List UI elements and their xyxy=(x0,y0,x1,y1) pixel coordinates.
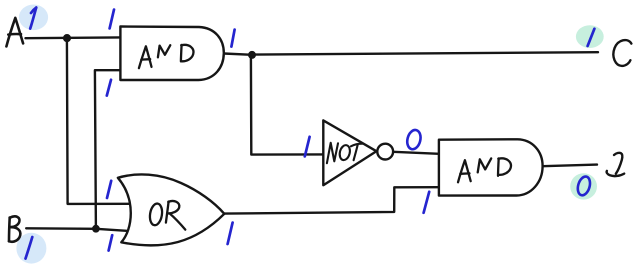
logic value 1 at NOT input xyxy=(305,137,310,157)
AND gate 1 label letter A xyxy=(139,46,152,68)
input label B xyxy=(9,216,20,241)
logic value 1 at AND1 input 2 xyxy=(107,80,111,96)
logic value 0 at NOT output xyxy=(405,129,422,151)
wire B up to AND1 input 2 xyxy=(95,70,121,229)
AND gate 2 body xyxy=(439,139,543,195)
AND gate 2 label letter N xyxy=(478,158,492,172)
wire A to AND1 input 1 xyxy=(26,36,121,39)
wire NOT output to AND2 input 1 xyxy=(393,152,439,154)
wire node A down to OR input 1 xyxy=(67,38,130,204)
wire B to OR input 2 xyxy=(26,228,126,231)
wire AND2 output to S xyxy=(543,165,597,167)
logic value 1 at AND1 input 1 xyxy=(110,10,114,29)
highlight on output S value xyxy=(570,173,597,199)
logic value 1 at input A xyxy=(30,8,36,29)
OR gate label letter O xyxy=(148,203,163,226)
AND gate 2 label letter A xyxy=(458,160,471,182)
NOT gate (inverter) triangle U3 xyxy=(323,120,376,185)
highlight on output C value xyxy=(576,25,604,48)
wire OR output to AND2 input 2 xyxy=(224,187,439,213)
highlight on input A value xyxy=(19,4,48,30)
logic value 1 at OR input 2 xyxy=(109,235,113,250)
logic value 1 at OR input 1 xyxy=(107,181,111,198)
junction node on B wire xyxy=(92,225,100,233)
wire AND1 output to node C xyxy=(224,54,252,55)
logic value 1 at AND1 output xyxy=(231,30,234,47)
OR gate label letter R xyxy=(166,201,185,230)
AND gate 2 label letter D xyxy=(498,158,511,175)
logic value 0 at output S xyxy=(576,175,592,197)
junction node on A wire xyxy=(63,34,71,42)
output label C xyxy=(613,40,631,66)
OR gate body xyxy=(118,174,224,245)
NOT gate label letter N xyxy=(327,143,338,163)
wire node down to NOT input xyxy=(251,55,324,155)
logic value 1 at input B xyxy=(26,237,33,259)
logic value 1 at OR output xyxy=(228,223,233,244)
NOT gate label letter O xyxy=(338,144,351,161)
wire node to output C xyxy=(252,52,598,54)
NOT gate label letter T xyxy=(351,144,363,161)
output label S xyxy=(607,153,625,176)
junction node at AND1 output xyxy=(248,51,256,59)
AND gate 1 label letter N xyxy=(158,45,170,57)
AND gate 1 label letter D xyxy=(181,45,194,62)
logic value 1 at output C xyxy=(588,29,595,46)
NOT gate inversion bubble xyxy=(377,144,393,160)
AND gate 1 body xyxy=(120,27,223,81)
input label A xyxy=(6,18,23,47)
highlight on input B value xyxy=(16,233,46,264)
logic value 1 at AND2 input 2 xyxy=(424,192,430,213)
